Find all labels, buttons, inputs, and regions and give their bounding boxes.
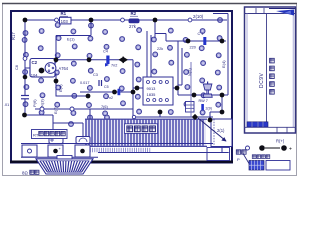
label DC9V [259, 72, 265, 88]
label 22k [157, 47, 163, 51]
C2 junction dot [39, 68, 45, 74]
pin label E(6) [58, 84, 63, 92]
junction dot 8 [54, 79, 59, 84]
wire return bus [213, 14, 228, 96]
svg-text:E(6): E(6) [58, 84, 63, 92]
coil label box [125, 124, 158, 134]
svg-text:R2: R2 [131, 11, 137, 16]
terminal bar [21, 144, 228, 158]
svg-text:+: + [289, 147, 292, 153]
legend label R(+) [276, 139, 285, 144]
junction dot 2 [89, 18, 94, 23]
junction dot 17 [22, 113, 27, 118]
wire x191 drop [190, 62, 192, 117]
pin label N(3) [40, 99, 45, 107]
outer gray frame [2, 4, 297, 176]
terminal box 3 [75, 145, 90, 157]
svg-text:RW 7: RW 7 [199, 99, 208, 103]
resistor R2 [129, 11, 140, 29]
IC U1 [143, 77, 173, 105]
pin label N(5) [187, 68, 192, 76]
capacitor C5 label [4, 103, 9, 107]
speaker label 8ohm [22, 170, 39, 175]
legend hatched card [249, 161, 264, 171]
svg-text:22k: 22k [157, 47, 163, 51]
wire coil top feed [133, 112, 213, 117]
junction dot 14 [86, 94, 91, 99]
legend node 2 [281, 145, 292, 152]
cap can 1 [49, 137, 63, 144]
svg-text:R17: R17 [11, 32, 16, 40]
wire C2 stub [25, 67, 30, 69]
wire twin into IC [147, 31, 151, 77]
svg-text:C2: C2 [32, 60, 38, 65]
RT capacitor box [32, 130, 68, 139]
legend circle [246, 146, 250, 150]
open node circle b [121, 18, 125, 22]
tuning box 2(1) [211, 119, 232, 147]
svg-text:C5: C5 [104, 85, 109, 89]
svg-text:P(6): P(6) [32, 99, 37, 107]
wire y109 rail [35, 109, 133, 119]
wire Q1 emitter [55, 74, 57, 97]
svg-text:104: 104 [31, 72, 38, 77]
junction dot 12 [220, 93, 225, 98]
capacitor C1 [190, 32, 207, 50]
junction dot 10 [175, 86, 180, 91]
capacitor C5 leads [21, 96, 29, 99]
svg-text:E(7): E(7) [53, 106, 58, 114]
svg-text:8Ω: 8Ω [22, 170, 28, 175]
junction dot 13 [220, 110, 225, 115]
svg-text:2(10): 2(10) [193, 14, 204, 19]
wire vertical bus pair [178, 41, 182, 95]
pin label E(7) [53, 106, 58, 114]
junction dot 5 [87, 57, 92, 62]
coil L1 body [85, 119, 207, 147]
capacitor C8 [201, 104, 212, 111]
junction dot 19 [208, 118, 213, 123]
svg-text:2(9): 2(9) [206, 107, 212, 111]
wire y41 rail [155, 20, 226, 41]
wire lower mid y96 [56, 95, 88, 97]
svg-text:C 1: C 1 [198, 32, 204, 36]
pin label E(4) [221, 60, 226, 68]
open node circle a [55, 18, 59, 22]
tuning arrow [198, 118, 227, 142]
junction dot 4 [54, 57, 59, 62]
svg-text:RT: RT [33, 132, 39, 137]
svg-text:9013: 9013 [147, 86, 157, 91]
pin label P(6) [32, 99, 37, 107]
junction dot 3 [153, 18, 158, 23]
terminal box 1 [22, 145, 37, 157]
rail node circle [23, 57, 27, 61]
transistor Q1 [45, 63, 69, 74]
junction dot 1 [23, 18, 28, 23]
wire y92 branch [80, 91, 133, 93]
label F(5) [101, 105, 108, 109]
connector module [186, 102, 195, 113]
connector block under tuning box [207, 148, 230, 161]
svg-text:103: 103 [61, 19, 69, 24]
svg-text:2(1): 2(1) [217, 128, 225, 133]
perfboard pads [22, 18, 222, 127]
svg-text:7n2: 7n2 [107, 96, 113, 100]
battery clip icon [269, 9, 295, 16]
wire trimmer rail [178, 95, 228, 120]
svg-text:0.017: 0.017 [80, 81, 90, 85]
svg-text:E(4): E(4) [221, 60, 226, 68]
terminal circle g [132, 115, 135, 118]
terminal circle f [70, 107, 74, 111]
junction dot 16 [131, 90, 136, 95]
junction dot 7 [220, 39, 225, 44]
svg-text:1835: 1835 [147, 92, 157, 97]
rail node dot [23, 75, 28, 80]
label E(1) [67, 37, 75, 42]
svg-text:C4: C4 [103, 50, 108, 54]
node label 2(10) [193, 14, 204, 19]
terminal circle e [40, 107, 44, 111]
capacitor C4 [103, 50, 117, 68]
legend card label [252, 155, 270, 159]
svg-text:E(1): E(1) [67, 37, 75, 42]
resistor R1 [60, 11, 72, 24]
battery panel frame [244, 7, 296, 133]
label battery cells [270, 58, 275, 94]
junction dot 11 [192, 93, 197, 98]
main board border [10, 11, 233, 163]
wire x133 drop [133, 60, 143, 117]
capacitor C2 module [30, 59, 55, 78]
speaker [36, 156, 93, 175]
capacitor C3 [80, 73, 102, 86]
svg-text:C8: C8 [15, 65, 19, 70]
svg-text:7n2: 7n2 [111, 64, 117, 68]
wire left rail [24, 20, 26, 115]
legend earphone label [236, 150, 250, 166]
junction dot 15 [112, 90, 117, 95]
battery panel bottom bar [244, 127, 296, 133]
svg-text:P: P [237, 157, 240, 162]
svg-text:.01: .01 [4, 103, 9, 107]
label C8 vertical [15, 65, 19, 70]
svg-text:N(3): N(3) [40, 99, 45, 107]
legend open card [266, 161, 290, 171]
wire top rail [25, 19, 227, 21]
svg-text:C3: C3 [93, 73, 98, 77]
svg-text:7(6): 7(6) [101, 105, 108, 109]
svg-text:27k: 27k [129, 24, 137, 29]
junction dot 18 [158, 110, 163, 115]
battery contact blob [247, 122, 268, 127]
capacitor C6 [104, 85, 120, 100]
junction dot 9 [135, 86, 140, 91]
open node circle c [188, 18, 192, 22]
junction dot 6 [186, 39, 191, 44]
terminal box 2 [48, 145, 63, 157]
label R17 vertical [11, 32, 16, 40]
battery panel divider [266, 14, 268, 127]
wire node115 [25, 115, 84, 138]
svg-text:DC9V: DC9V [259, 72, 265, 88]
svg-text:R1: R1 [61, 11, 67, 16]
svg-text:R(+): R(+) [276, 139, 285, 144]
svg-text:A764: A764 [59, 66, 69, 71]
svg-text:N(5): N(5) [187, 68, 192, 76]
wire IC right to bus [173, 87, 178, 89]
cap can 2 [76, 137, 90, 144]
coil top node [192, 114, 198, 120]
wire mid rail y60 [56, 59, 133, 61]
legend node 1 [259, 145, 280, 151]
svg-text:220: 220 [190, 46, 196, 50]
coil winding band [86, 148, 150, 152]
diode arrow node [119, 56, 129, 63]
wire step to Q1 [56, 20, 91, 63]
trimmer RW [199, 82, 213, 103]
